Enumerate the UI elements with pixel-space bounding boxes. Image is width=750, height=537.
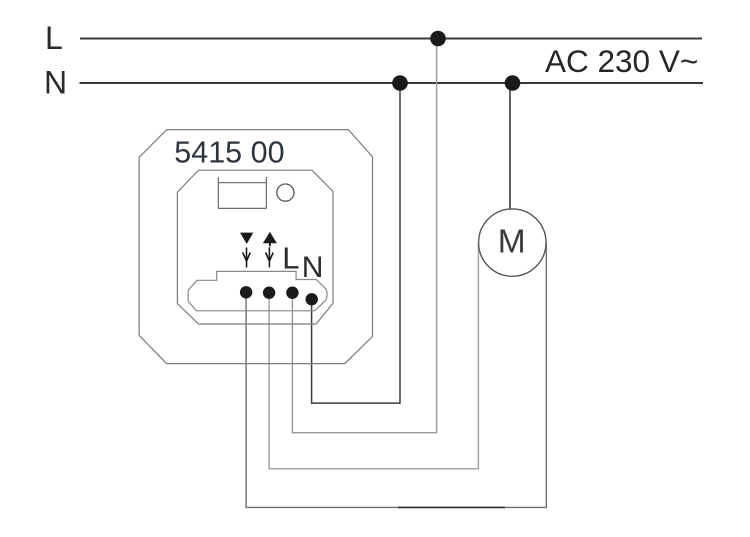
svg-text:L: L (45, 20, 63, 56)
wire from N junction down to blind terminal (N) (312, 83, 400, 403)
wire from N junction down to motor M (509, 83, 511, 210)
indicator circle (277, 184, 294, 201)
svg-text:N: N (44, 65, 67, 101)
device U1 blind insert 5415 00: outer mounting frame (octagon) (139, 130, 372, 364)
label N (44, 65, 67, 101)
junction on N line (motor feed) (505, 75, 521, 91)
value label 5415 00 (174, 135, 284, 169)
wire net N (horizontal line) (80, 82, 704, 84)
motor M1 (479, 209, 546, 276)
terminal 2 (motor output 1) (263, 287, 275, 299)
terminal block outline (188, 271, 327, 310)
junction on N line (left) (392, 75, 408, 91)
wire net L (horizontal line) (80, 38, 702, 40)
device U1 inner body outline (177, 170, 333, 324)
svg-text:L: L (282, 240, 299, 275)
symbol blind up (solid arrow up + arrow) (263, 232, 277, 268)
wire from blind output 1 to motor left terminal (269, 243, 478, 469)
svg-text:N: N (302, 251, 324, 284)
clamp window (rectangle with tabs) (218, 177, 266, 208)
value label AC 230 V~ (545, 43, 698, 79)
terminal 4 (pin N) (306, 293, 318, 305)
symbol blind down (solid triangle + arrow) (240, 233, 253, 268)
svg-text:AC 230 V~: AC 230 V~ (545, 43, 698, 79)
svg-text:5415 00: 5415 00 (174, 135, 284, 169)
label L (45, 20, 63, 56)
terminal 3 (pin L) (286, 287, 298, 299)
wire from blind output 2 to motor right terminal (246, 243, 546, 508)
terminal 1 (motor output 2) (240, 286, 252, 298)
pin label N (302, 251, 324, 284)
wire from L junction down to blind terminal (L) (292, 39, 436, 433)
junction on L line (430, 31, 446, 47)
pin label L (282, 240, 299, 275)
svg-text:M: M (498, 223, 526, 260)
